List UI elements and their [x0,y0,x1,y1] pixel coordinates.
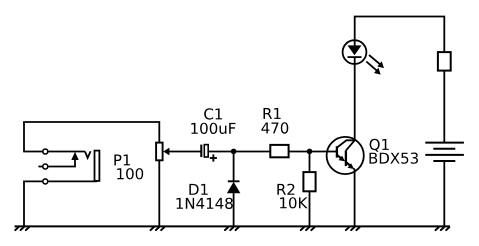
wire: Q1 collector to LED [354,64,356,140]
battery short plate 1 [433,148,455,150]
LED emission arrow 1 [369,55,384,68]
label 100 [117,168,143,179]
transistor Q1 circle [327,137,364,174]
jack plug body [95,151,100,181]
wire: node to R1 [234,151,271,153]
ground hatch at Q1 emitter [346,227,360,230]
terminal tip [43,149,48,154]
wire: top [355,17,445,53]
label R1 [264,108,281,119]
wire: D1 to ground [233,193,235,226]
label 100uF [191,123,235,134]
LED wire inside bottom [354,57,356,64]
wire: jack sleeve to ground [24,181,45,226]
LED triangle [348,45,362,55]
label Q1 [370,139,389,152]
wire: R1 to node2 [289,151,310,153]
diode D1 cathode bar [228,180,240,182]
Q1 base bar B1 [336,146,338,157]
resistor R2 [303,172,315,191]
node R1/R2 [307,149,313,155]
Q1 base bar B2 [345,150,347,166]
Q1 T1 collector [337,140,355,147]
wire: tip line [45,151,85,153]
Q1 T2 collector [346,140,355,150]
terminal sleeve [43,179,48,184]
wire: Q1 emitter to ground [354,169,355,227]
jack switch wire [45,159,75,167]
ground hatch at R2 [301,227,315,230]
jack stub middle [38,166,42,168]
resistor R3 (unlabeled) [438,52,451,71]
LED cathode bar [348,56,362,58]
C1 plus sign [210,154,217,161]
ground hatch at P1 pot [151,227,165,230]
wire: node to D1 [233,152,235,182]
battery short plate 2 [433,160,455,162]
Q1 base wire inside [327,151,337,153]
label D1 [189,184,207,195]
label C1 [204,108,222,119]
wire: node2 to Q1 base [310,151,337,153]
Q1 T2 emitter [346,162,350,165]
wire: battery to ground [443,161,445,226]
wire: jack top loop [24,122,159,152]
capacitor C1 right plate [204,145,208,157]
Q1 T1 emitter arrow [339,156,346,162]
wire: C1 to node [208,151,233,153]
ground hatch at D1 [225,227,239,230]
ground hatch at battery [436,227,450,230]
label P1 [114,155,130,166]
label R2 [277,184,294,195]
label 470 [261,122,288,133]
battery long plate 1 [425,142,464,144]
LED emission arrow 2 [366,62,380,75]
terminal switch [43,164,48,169]
ground hatch at P1 jack left [15,227,29,230]
pot wiper arrow [163,148,169,156]
label 1N4148 [177,198,233,209]
label BDX53 [370,153,419,164]
wire: R3 to battery [443,71,445,143]
resistor R1 [270,145,288,157]
potentiometer P1 body [156,143,163,161]
wire: node2 to R2 [309,152,311,173]
battery long plate 2 [425,154,464,156]
label 10K [280,197,308,208]
node C1/D1 [231,149,237,155]
Q1 T2 emitter arrow [348,163,355,169]
wire: pot bottom to ground [158,160,160,226]
LED wire inside top [354,40,356,45]
Q1 T1 emitter [337,155,341,158]
jack tip notch [85,151,91,158]
jack switch arrow [71,152,78,160]
wire: sleeve line to plug [45,180,97,182]
capacitor C1 left plate [200,145,202,157]
ground rail [15,225,451,227]
wire: wiper to C1 [169,151,201,153]
wire: R2 to ground [309,191,311,226]
LED circle [343,40,367,64]
diode D1 triangle [227,182,241,193]
